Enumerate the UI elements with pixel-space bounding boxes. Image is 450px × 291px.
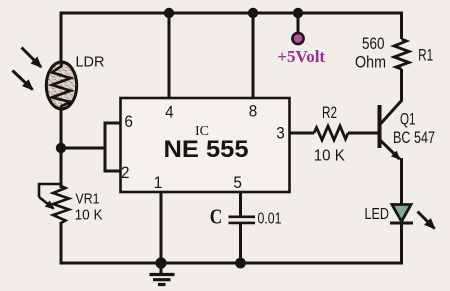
wire emitter to LED [400,158,403,206]
svg-text:R1: R1 [418,47,433,65]
svg-text:VR1: VR1 [76,191,100,208]
wire pin1 to ground [160,192,163,274]
wire bracket vertical bar [104,122,107,173]
capacitor C top plate [229,216,256,219]
op IC NE555 box [121,98,290,192]
capacitor C bottom plate [229,222,256,225]
svg-text:Ohm: Ohm [355,54,386,72]
wire bottom rail [60,262,404,265]
node junction top pin4 [164,8,174,18]
svg-text:3: 3 [276,123,285,142]
svg-text:C: C [210,204,223,228]
LDR photoresistor ellipse [46,62,76,109]
wire pin4 stub [168,13,171,98]
wire R1 to collector [400,69,403,101]
svg-text:10 K: 10 K [75,206,103,223]
wire right rail (top corner to R1) [400,12,403,40]
svg-text:560: 560 [362,35,385,53]
svg-text:0.01: 0.01 [258,210,282,227]
wire left rail middle (LDR to VR1) [60,106,63,188]
wire left rail lower (VR1 to bottom corner) [60,222,63,265]
LED light arrow [418,212,435,229]
resistor R2 zigzag [314,126,348,140]
wire top rail [60,12,404,15]
svg-text:LED: LED [364,206,389,223]
node junction LDR/VR1 [56,143,66,153]
wire pin8 stub [252,13,255,98]
LED cathode bar [390,222,413,225]
capacitor C wire pin5 to plate [239,192,242,216]
transistor Q1 emitter with arrow [380,140,400,160]
LED diode triangle [392,205,411,222]
svg-text:8: 8 [249,102,258,121]
potentiometer VR1 zigzag [53,186,69,223]
ground symbol [150,275,175,285]
svg-text:+5Volt: +5Volt [277,47,325,66]
svg-text:BC 547: BC 547 [393,129,435,147]
VR1 wiper bracket [39,184,61,197]
+5V supply terminal circle [292,33,303,44]
svg-text:10 K: 10 K [314,147,345,164]
svg-text:Q1: Q1 [400,110,416,128]
LDR light arrow 1 [22,48,42,68]
wire pin6 stub [104,122,122,125]
wire +5V stub [297,13,300,33]
node junction ground [155,257,166,268]
svg-text:R2: R2 [322,104,337,122]
wire junction to pin6/2 bracket [61,147,105,150]
resistor R1 zigzag [394,39,409,69]
wire pin3 to R2 [290,132,315,135]
wire R2 to base [348,132,379,135]
svg-text:5: 5 [233,173,242,192]
svg-text:1: 1 [154,173,163,192]
transistor Q1 base bar [378,105,382,148]
node junction top pin8 [248,8,258,18]
wire pin2 stub [104,170,122,173]
svg-text:6: 6 [124,112,133,131]
node junction +5V [293,8,303,18]
LDR inner zigzag [52,63,71,109]
VR1 wiper arrow [39,197,54,209]
svg-text:2: 2 [121,163,130,182]
wire LED to bottom rail [400,222,403,265]
wire capacitor to bottom rail [239,223,242,263]
transistor Q1 collector [380,100,403,125]
node junction capacitor bottom [235,258,246,269]
wire left rail upper (top corner to LDR) [60,12,63,67]
svg-text:4: 4 [165,103,174,122]
LDR light arrow 2 [13,71,33,90]
svg-text:NE 555: NE 555 [164,136,249,163]
svg-text:LDR: LDR [75,55,104,71]
